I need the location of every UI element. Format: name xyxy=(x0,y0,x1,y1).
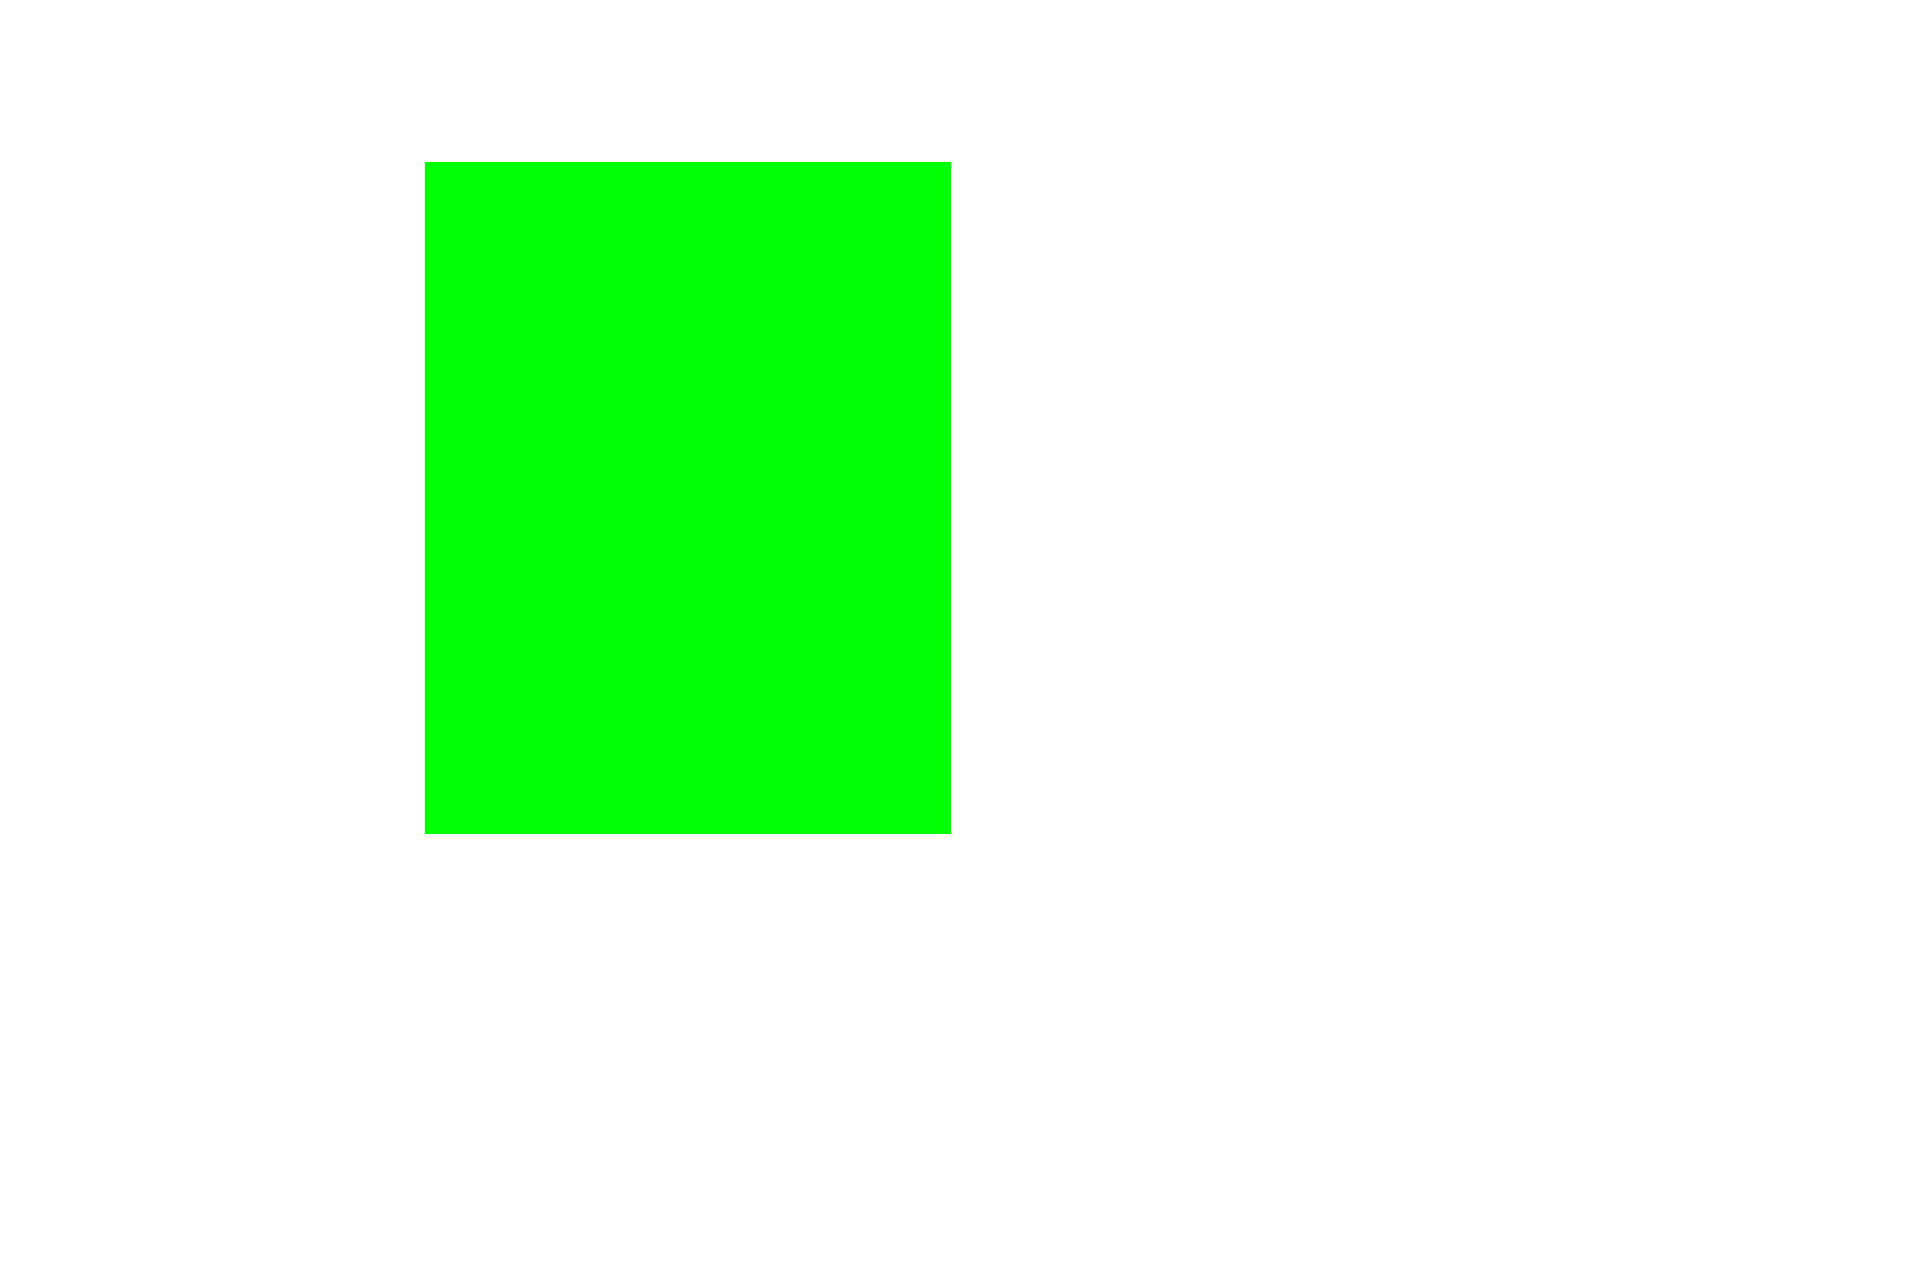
green rectangle xyxy=(425,162,951,834)
